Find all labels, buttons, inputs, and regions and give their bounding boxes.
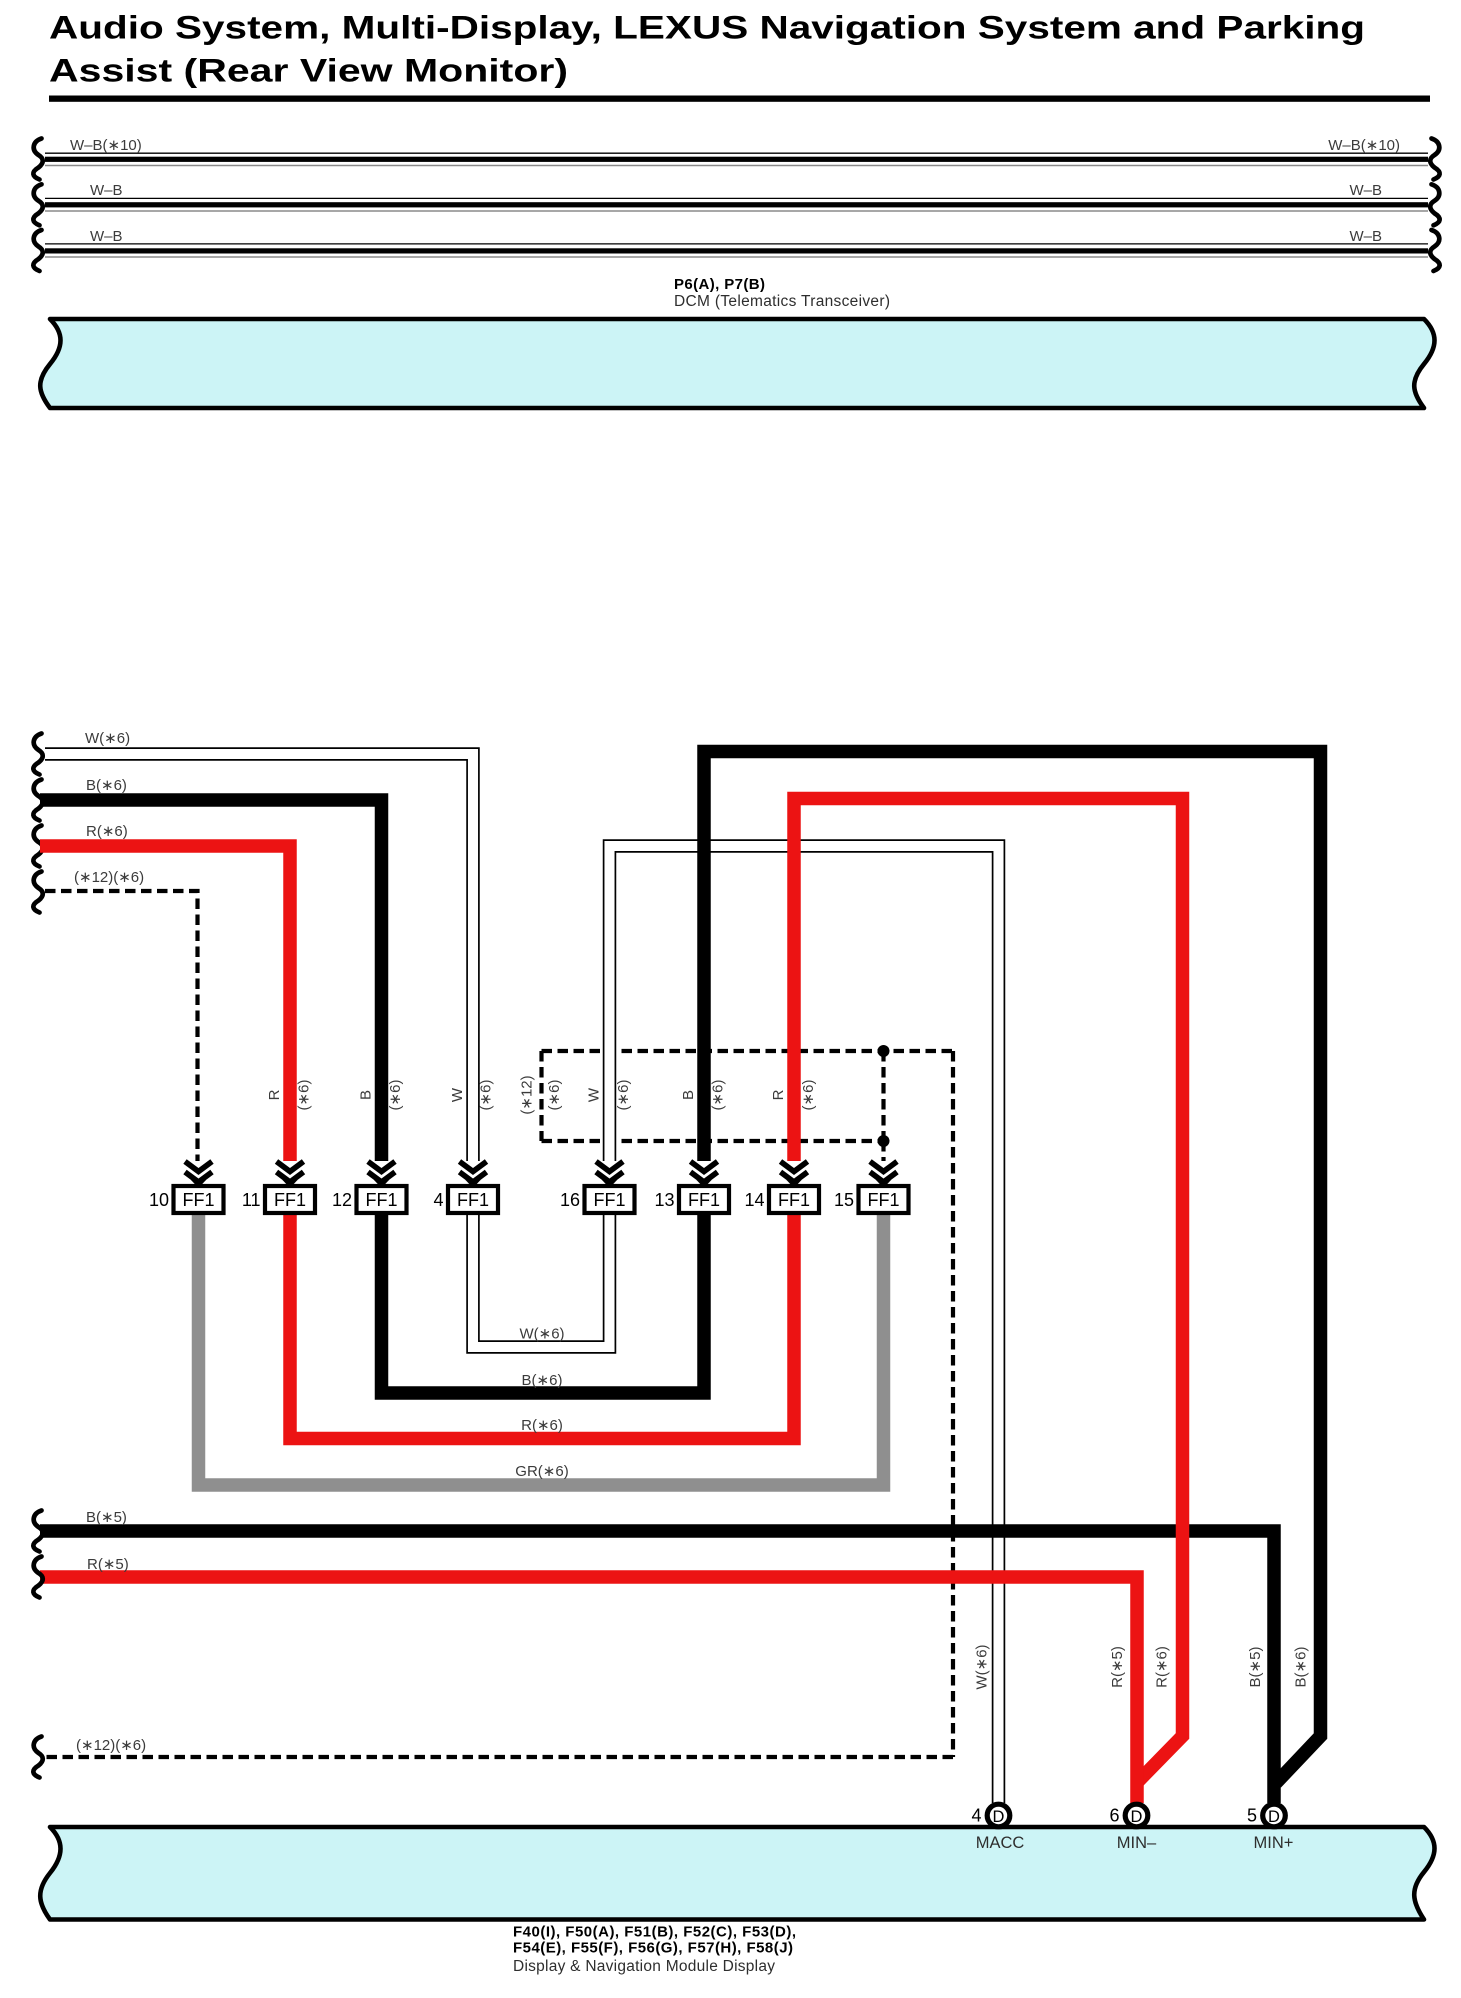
svg-text:R(∗6): R(∗6) (521, 1417, 563, 1434)
svg-text:(∗6): (∗6) (800, 1080, 817, 1111)
svg-text:B(∗5): B(∗5) (1247, 1647, 1264, 1688)
svg-text:(∗6): (∗6) (296, 1080, 313, 1111)
wire B(*6) from FF1-13 up and over to pin 5 MIN+ (704, 752, 1321, 1784)
wire B(*6) from left edge to connector FF1-12 (40, 800, 382, 1161)
wire dashed junction box top edge (542, 1049, 954, 1053)
svg-text:FF1: FF1 (182, 1190, 214, 1210)
junction dot lower (878, 1135, 890, 1147)
svg-text:R(∗6): R(∗6) (1154, 1646, 1171, 1688)
svg-text:W: W (449, 1087, 466, 1102)
wire dashed junction box left edge (539, 1051, 543, 1141)
wire (*12)(*6) dashed bottom run (45, 1755, 953, 1759)
component band Display & Navigation Module Display (40, 1827, 1434, 1920)
connector FF1 pin 14 (744, 1162, 819, 1214)
wire break symbol channel 1 right (1430, 139, 1439, 180)
connector FF1 pin 4 (433, 1162, 498, 1214)
connector FF1 pin 10 (149, 1162, 224, 1214)
svg-text:16: 16 (560, 1190, 580, 1210)
svg-text:W–B(∗10): W–B(∗10) (70, 137, 142, 154)
svg-text:14: 14 (744, 1190, 764, 1210)
wire W-B(*10) bus channel 1 (45, 153, 1428, 165)
svg-text:(∗6): (∗6) (710, 1080, 727, 1111)
connector FF1 pin 16 (560, 1162, 635, 1214)
svg-text:R(∗5): R(∗5) (87, 1556, 129, 1573)
svg-text:FF1: FF1 (365, 1190, 397, 1210)
svg-text:D: D (1268, 1808, 1280, 1826)
svg-text:D: D (1131, 1808, 1143, 1826)
svg-text:F40(I), F50(A), F51(B), F52(C): F40(I), F50(A), F51(B), F52(C), F53(D), (513, 1924, 796, 1941)
svg-text:15: 15 (834, 1190, 854, 1210)
wire break symbol (*12)(*6) bottom left (33, 1737, 42, 1778)
svg-text:MIN+: MIN+ (1254, 1834, 1294, 1852)
wire break symbol channel 2 left (33, 184, 42, 225)
svg-text:W–B: W–B (1349, 228, 1382, 245)
connector FF1 pin 11 (242, 1162, 315, 1214)
svg-text:5: 5 (1247, 1806, 1257, 1826)
svg-text:MIN–: MIN– (1117, 1834, 1157, 1852)
svg-text:FF1: FF1 (593, 1190, 625, 1210)
svg-text:FF1: FF1 (688, 1190, 720, 1210)
wire W-B bus channel 2 (45, 198, 1428, 211)
svg-text:W: W (586, 1087, 603, 1102)
svg-text:W(∗6): W(∗6) (85, 730, 130, 747)
svg-text:W(∗6): W(∗6) (519, 1326, 564, 1343)
svg-text:Assist (Rear View Monitor): Assist (Rear View Monitor) (49, 53, 568, 89)
pin 6 circle D (1125, 1804, 1148, 1827)
component band DCM (Telematics Transceiver) (40, 319, 1434, 408)
svg-text:FF1: FF1 (274, 1190, 306, 1210)
svg-text:(∗12)(∗6): (∗12)(∗6) (76, 1737, 146, 1754)
svg-text:R: R (266, 1089, 283, 1100)
svg-text:F54(E), F55(F), F56(G), F57(H): F54(E), F55(F), F56(G), F57(H), F58(J) (513, 1940, 793, 1957)
svg-text:(∗6): (∗6) (387, 1080, 404, 1111)
connector FF1 pin 12 (332, 1162, 407, 1214)
wire break symbol channel 3 right (1430, 230, 1439, 271)
svg-text:W–B: W–B (90, 182, 123, 199)
wire break symbol channel 2 right (1430, 184, 1439, 225)
svg-text:11: 11 (242, 1190, 261, 1210)
wire W-B bus channel 3 (45, 244, 1428, 257)
svg-text:4: 4 (971, 1806, 981, 1826)
svg-text:(∗6): (∗6) (546, 1080, 563, 1111)
wire break symbol R(*6) left (33, 826, 42, 867)
svg-text:(∗6): (∗6) (615, 1080, 632, 1111)
wire break symbol R(*5) left (33, 1557, 42, 1598)
connector FF1 pin 13 (654, 1162, 729, 1214)
wire B(*6) U-link from FF1-12 to FF1-13 (382, 1213, 705, 1393)
wire W(*6) from left edge to connector FF1-4 (45, 754, 473, 1161)
svg-text:B(∗6): B(∗6) (86, 777, 127, 794)
wire W(*6) U-link from FF1-4 to FF1-16 (473, 1213, 610, 1347)
wire break symbol B(*6) left (33, 780, 42, 821)
svg-text:(∗12): (∗12) (519, 1075, 536, 1114)
svg-text:Display & Navigation Module Di: Display & Navigation Module Display (513, 1958, 775, 1975)
svg-text:R(∗5): R(∗5) (1109, 1646, 1126, 1688)
svg-text:MACC: MACC (976, 1834, 1025, 1852)
svg-text:W–B(∗10): W–B(∗10) (1328, 137, 1400, 154)
svg-text:B(∗5): B(∗5) (86, 1509, 127, 1526)
wire break symbol channel 3 left (33, 230, 42, 271)
wire GR(*6) from FF1-10 to FF1-15 (199, 1213, 884, 1485)
pin 5 circle D (1263, 1804, 1286, 1827)
wire break symbol channel 1 left (33, 139, 42, 180)
svg-text:GR(∗6): GR(∗6) (515, 1463, 568, 1480)
wire dashed vertical to bottom run (951, 1051, 955, 1757)
svg-text:B(∗6): B(∗6) (522, 1372, 563, 1389)
svg-text:R: R (770, 1089, 787, 1100)
wire R(*6) from left edge to connector FF1-11 (40, 846, 290, 1161)
wire dashed junction box bottom edge (542, 1139, 884, 1143)
connector FF1 pin 15 (834, 1162, 909, 1214)
wire dashed stub to connector FF1-15 (881, 1141, 885, 1161)
svg-text:FF1: FF1 (867, 1190, 899, 1210)
pin 4 circle D (987, 1804, 1010, 1827)
wire break symbol (*12)(*6) left (33, 872, 42, 913)
wire R(*6) from FF1-14 up and over to pin 6 MIN- (794, 799, 1183, 1782)
svg-text:(∗6): (∗6) (478, 1080, 495, 1111)
svg-text:P6(A), P7(B): P6(A), P7(B) (674, 276, 765, 293)
svg-text:R(∗6): R(∗6) (86, 823, 128, 840)
svg-text:D: D (993, 1808, 1005, 1826)
svg-text:FF1: FF1 (778, 1190, 810, 1210)
wire R(*5) from left edge to pin 6 MIN- (40, 1577, 1137, 1803)
wire dashed link between junction dots (881, 1051, 885, 1141)
svg-text:DCM (Telematics Transceiver): DCM (Telematics Transceiver) (674, 293, 890, 310)
svg-text:W–B: W–B (90, 228, 123, 245)
junction dot upper (878, 1045, 890, 1057)
svg-text:6: 6 (1109, 1806, 1119, 1826)
wire break symbol B(*5) left (33, 1511, 42, 1552)
svg-text:B: B (358, 1090, 375, 1100)
wire R(*6) U-link from FF1-11 to FF1-14 (290, 1213, 794, 1439)
wire (*12)(*6) dashed from left edge to connector FF1-10 (45, 891, 198, 1161)
svg-text:W–B: W–B (1349, 182, 1382, 199)
svg-text:B: B (680, 1090, 697, 1100)
svg-text:4: 4 (433, 1190, 443, 1210)
svg-text:13: 13 (654, 1190, 674, 1210)
svg-text:12: 12 (332, 1190, 352, 1210)
wire break symbol W(*6) left (33, 734, 42, 775)
svg-text:Audio System, Multi-Display, L: Audio System, Multi-Display, LEXUS Navig… (49, 10, 1365, 46)
svg-text:FF1: FF1 (457, 1190, 489, 1210)
wire W(*6) from FF1-16 up and over to pin 4 MACC (610, 846, 999, 1803)
title (49, 10, 1430, 102)
wire B(*5) from left edge to pin 5 MIN+ (40, 1531, 1274, 1803)
svg-text:10: 10 (149, 1190, 169, 1210)
svg-text:W(∗6): W(∗6) (974, 1644, 991, 1689)
svg-text:B(∗6): B(∗6) (1293, 1647, 1310, 1688)
svg-text:(∗12)(∗6): (∗12)(∗6) (74, 869, 144, 886)
